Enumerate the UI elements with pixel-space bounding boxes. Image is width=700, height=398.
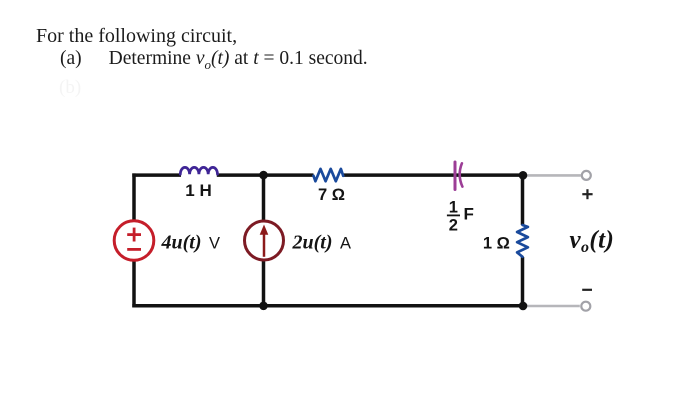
terminal top [582, 171, 591, 180]
svg-text:4u(t): 4u(t) [161, 231, 202, 253]
voltage source minus sign [127, 248, 141, 251]
junction node bottom middle [259, 302, 268, 311]
wire bottom horizontal [132, 304, 523, 308]
svg-text:2: 2 [449, 216, 458, 234]
title line 2 [60, 48, 368, 73]
svg-text:A: A [340, 234, 351, 252]
resistor 1 ohm vertical [517, 225, 528, 257]
wire left vertical bottom [132, 260, 136, 307]
title line 1 [36, 25, 237, 48]
current source arrow [260, 225, 269, 257]
label vo(t) [570, 227, 615, 257]
label minus terminal [582, 289, 592, 291]
label plus terminal [582, 189, 592, 199]
inductor L 1H [180, 167, 217, 174]
label 1/2 F [447, 199, 474, 235]
wire middle vertical bottom [262, 260, 266, 306]
wire gray to top terminal [523, 174, 581, 177]
svg-text:V: V [209, 234, 220, 252]
junction node bottom right [519, 302, 528, 311]
wire right vertical top [521, 175, 525, 225]
wire left vertical top [132, 173, 136, 221]
svg-text:1 Ω: 1 Ω [483, 235, 510, 253]
resistor R 7ohm [314, 169, 344, 181]
label 7 ohm [318, 186, 345, 204]
junction node top right [519, 171, 528, 180]
label 1 ohm [483, 235, 510, 253]
label 2u(t) A [292, 231, 352, 253]
svg-text:1 H: 1 H [185, 181, 211, 200]
label 1 H [185, 181, 211, 200]
wire middle vertical top [262, 175, 266, 222]
svg-text:vo(t): vo(t) [570, 227, 615, 257]
svg-text:7 Ω: 7 Ω [318, 186, 345, 204]
label 4u(t) V [161, 231, 221, 253]
svg-text:2u(t): 2u(t) [292, 231, 333, 253]
wire right vertical bottom [521, 257, 525, 306]
capacitor C half F [455, 162, 462, 190]
wire top right segment [343, 173, 523, 177]
wire top middle segment [217, 173, 314, 177]
terminal bottom [581, 302, 590, 311]
svg-text:F: F [464, 205, 474, 224]
junction node top middle [259, 171, 268, 180]
svg-text:1: 1 [449, 199, 458, 217]
faint ghost text [59, 77, 81, 99]
current source Is circle [245, 221, 284, 260]
voltage source Vs circle [114, 221, 154, 261]
voltage source plus sign [127, 228, 141, 242]
wire gray to bottom terminal [523, 305, 580, 308]
wire top left segment [132, 173, 181, 177]
